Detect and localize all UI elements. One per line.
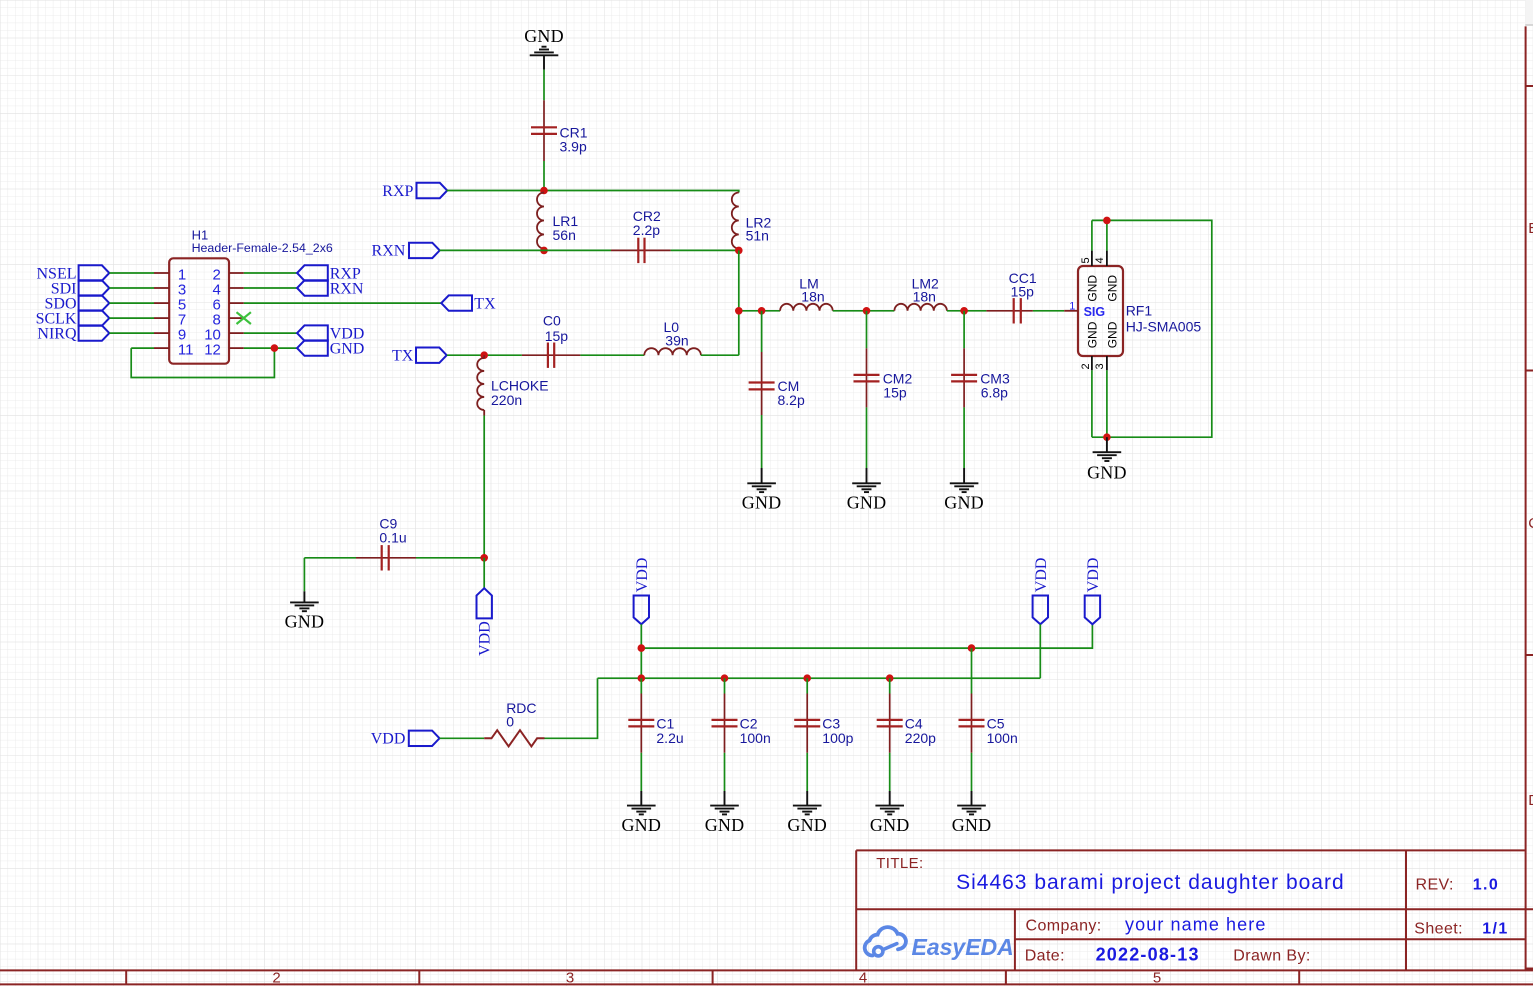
port GND H1 [297,340,364,357]
svg-text:GND: GND [1105,321,1119,348]
svg-text:GND: GND [870,815,910,835]
svg-text:GND: GND [952,815,992,835]
junction [480,554,488,562]
port VDD rail3 [1085,558,1102,625]
junction [735,247,743,255]
wire [971,753,973,791]
wire [806,753,808,791]
capacitor C1 2.2u [628,694,683,753]
svg-text:Sheet:: Sheet: [1414,921,1463,938]
svg-text:VDD: VDD [1033,558,1050,593]
junction [803,674,811,682]
title text [876,855,1508,965]
svg-text:B: B [1528,220,1533,237]
wire [109,317,154,319]
wire [440,737,485,739]
svg-text:2022-08-13: 2022-08-13 [1096,945,1200,965]
svg-text:3: 3 [1094,363,1106,369]
port TX pin6 [441,295,496,312]
port VDD RDC [371,731,440,748]
svg-text:100n: 100n [740,730,771,746]
svg-text:REV:: REV: [1416,876,1454,893]
svg-text:GND: GND [285,612,325,632]
svg-text:VDD: VDD [634,558,651,593]
svg-text:GND: GND [847,493,887,513]
svg-text:VDD: VDD [477,621,494,656]
port RXP H1 [297,265,361,282]
svg-text:1.0: 1.0 [1473,877,1499,894]
wire [963,407,965,468]
wire [761,415,763,468]
ground GND C9 [285,591,325,631]
wire upper rail [641,624,1092,648]
port VDD H1 [297,325,364,342]
EasyEDA logo [865,927,1014,960]
ground GND RF1 [1087,437,1127,482]
svg-text:56n: 56n [553,227,576,243]
wire [724,753,726,791]
svg-text:11: 11 [178,341,194,358]
junction [480,351,488,359]
svg-text:VDD: VDD [1085,558,1102,593]
inductor LR2 51n [732,193,772,249]
title block [856,850,1533,970]
svg-text:0: 0 [506,714,514,730]
svg-text:C0: C0 [543,313,561,329]
svg-text:2: 2 [1080,363,1092,369]
junction [638,674,646,682]
port NSEL [37,265,110,282]
ground GND C1 [621,791,661,835]
ground GND CM [742,468,782,513]
wire pin11 loop [131,348,274,377]
wire RXN net [439,249,738,251]
svg-text:RXP: RXP [382,183,413,200]
svg-text:12: 12 [204,341,221,358]
capacitor CM3 6.8p [951,348,1010,407]
svg-text:your name here: your name here [1125,915,1266,935]
svg-text:TX: TX [392,348,414,365]
svg-text:RF1: RF1 [1126,303,1153,319]
wire [947,310,987,312]
ground GND C5 [952,791,992,835]
svg-text:18n: 18n [913,288,936,304]
junction [758,307,766,315]
wire [889,753,891,791]
junction [886,674,894,682]
inductor LM 18n [780,275,833,311]
svg-text:100n: 100n [987,730,1018,746]
wire C9 net [304,558,484,592]
wire [244,287,297,289]
junction [863,307,871,315]
svg-text:NIRQ: NIRQ [37,325,77,342]
wire [701,354,739,356]
wire [963,311,965,349]
svg-text:GND: GND [621,815,661,835]
svg-text:RXN: RXN [372,243,406,260]
svg-text:Si4463 barami project daughter: Si4463 barami project daughter board [956,871,1345,894]
junction [968,644,976,652]
ground GND top [524,26,564,70]
svg-text:Header-Female-2.54_2x6: Header-Female-2.54_2x6 [192,241,333,255]
wire [971,648,973,693]
junction [960,307,968,315]
port TX [392,348,447,365]
wire [761,311,763,352]
svg-text:51n: 51n [746,228,769,244]
junction [638,644,646,652]
svg-text:GND: GND [705,815,745,835]
capacitor C2 100n [712,694,771,753]
inductor LCHOKE 220n [477,355,548,415]
wire [244,347,297,349]
svg-text:Date:: Date: [1025,948,1065,965]
capacitor CC1 15p [986,270,1036,323]
wire [738,250,740,355]
inductor LR1 56n [537,193,578,249]
svg-text:GND: GND [1086,275,1100,302]
wire [640,753,642,791]
port SDO [44,295,109,312]
svg-text:15p: 15p [545,328,569,344]
svg-text:1: 1 [1069,301,1075,313]
capacitor C4 220p [877,694,936,753]
capacitor CM 8.2p [749,352,805,415]
wire [866,311,868,349]
svg-text:VDD: VDD [371,731,406,748]
ground GND CM2 [847,468,887,513]
svg-text:15p: 15p [1011,283,1035,299]
junction [1103,217,1111,225]
wire [640,624,642,678]
wire [889,678,891,693]
resistor RDC 0 [484,700,544,747]
port RXP [382,183,447,200]
capacitor C0 15p [522,313,581,368]
svg-text:GND: GND [330,340,365,357]
svg-text:RXN: RXN [330,280,364,297]
wire [483,416,485,558]
wire [543,70,545,101]
ground GND CM3 [944,468,984,513]
svg-text:8.2p: 8.2p [778,392,805,408]
inductor L0 39n [644,319,701,355]
wire [806,678,808,693]
wire [545,678,598,738]
svg-text:39n: 39n [665,333,688,349]
capacitor C3 100p [794,694,853,753]
svg-text:5: 5 [1080,257,1092,263]
junction [540,247,548,255]
no-connect pin8 [237,312,251,324]
wire [244,332,297,334]
junction [1103,433,1111,441]
wire lower rail [598,677,1041,679]
wire [580,354,644,356]
inductor LM2 18n [894,275,947,311]
junction [271,344,279,352]
wire [244,272,297,274]
svg-text:HJ-SMA005: HJ-SMA005 [1126,319,1202,335]
port VDD rail1 [634,558,651,625]
capacitor CR2 2.2p [611,208,671,263]
svg-text:220p: 220p [905,730,936,746]
capacitor CM2 15p [854,348,913,407]
svg-text:4: 4 [859,970,867,986]
port VDD vertical [477,588,494,656]
wire RXP net [447,191,739,193]
svg-text:GND: GND [1105,275,1119,302]
port SCLK [36,310,110,327]
svg-text:6.8p: 6.8p [981,385,1008,401]
svg-text:TITLE:: TITLE: [876,855,923,872]
svg-text:1/1: 1/1 [1482,921,1508,938]
svg-text:2.2u: 2.2u [656,730,683,746]
svg-text:GND: GND [944,493,984,513]
wire [244,302,441,304]
connector H1 Header-Female-2.54_2x6 [154,228,333,364]
svg-text:GND: GND [1086,321,1100,348]
svg-text:5: 5 [1153,970,1161,986]
junction [540,187,548,195]
wire [483,558,485,588]
svg-text:15p: 15p [883,385,907,401]
svg-text:TX: TX [474,295,496,312]
wire [1039,624,1041,678]
svg-text:GND: GND [742,493,782,513]
ground GND C3 [787,791,827,835]
wire [724,678,726,693]
svg-text:GND: GND [524,26,564,46]
wire [1033,310,1064,312]
capacitor C9 0.1u [356,515,416,570]
wire [833,310,895,312]
wire [109,272,154,274]
wire [640,678,642,693]
svg-text:D: D [1528,792,1533,809]
wire [543,161,545,191]
svg-text:Drawn By:: Drawn By: [1233,948,1310,965]
svg-text:SIG: SIG [1084,305,1106,319]
capacitor CR1 3.9p [531,100,588,161]
port NIRQ [37,325,109,342]
wire [447,354,522,356]
svg-text:0.1u: 0.1u [379,530,406,546]
svg-text:GND: GND [1087,463,1127,483]
wire [109,332,154,334]
ground GND C2 [705,791,745,835]
port VDD rail2 [1033,558,1050,625]
wire RF1 ground loop [1092,220,1212,437]
wire [109,287,154,289]
port SDI [51,280,110,297]
svg-text:Company:: Company: [1026,918,1102,935]
capacitor C5 100n [959,694,1018,753]
connector RF1 HJ-SMA005 [1064,251,1201,371]
svg-text:2: 2 [272,970,280,986]
svg-text:3: 3 [566,970,574,986]
svg-text:EasyEDA: EasyEDA [912,934,1014,960]
junction [735,307,743,315]
port RXN [372,243,440,260]
wire RF row [739,310,780,312]
svg-text:GND: GND [787,815,827,835]
svg-text:100p: 100p [822,730,853,746]
svg-text:4: 4 [1094,257,1106,263]
port RXN H1 [297,280,364,297]
ground GND C4 [870,791,910,835]
junction [721,674,729,682]
wire [109,302,154,304]
svg-text:220n: 220n [491,392,522,408]
svg-text:3.9p: 3.9p [560,139,587,155]
wire [866,407,868,468]
svg-text:C: C [1528,515,1533,532]
svg-text:2.2p: 2.2p [633,222,660,238]
svg-text:18n: 18n [801,288,824,304]
